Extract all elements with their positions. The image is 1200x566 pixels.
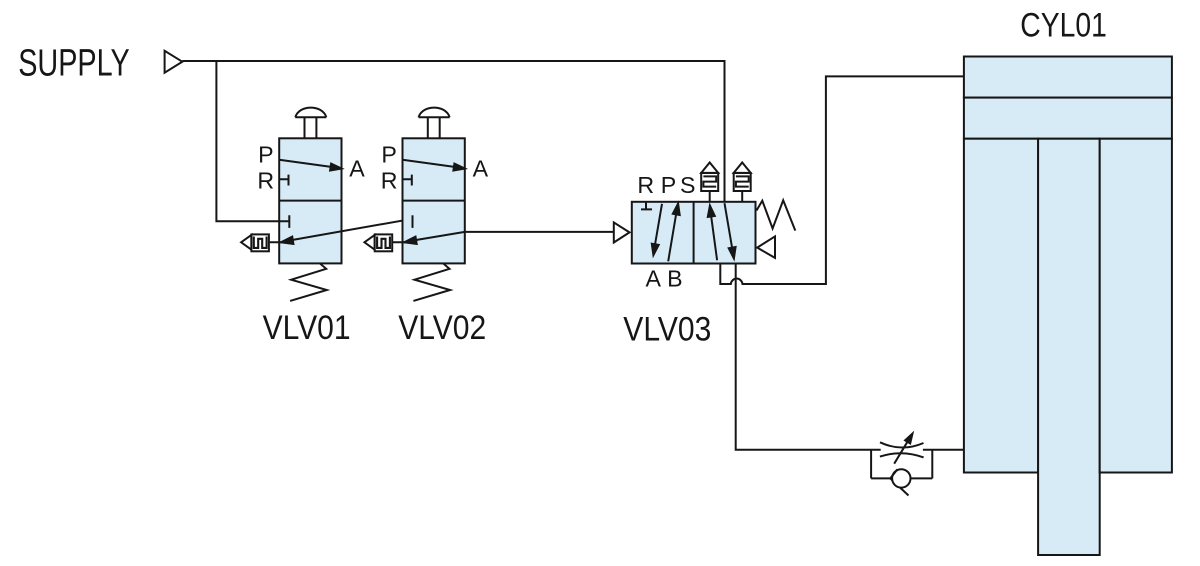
- svg-text:R: R: [381, 168, 398, 194]
- valve VLV01 exhaust arrow A to R: [269, 219, 413, 243]
- valve VLV03 flow arrow right chamber down: [725, 203, 733, 249]
- valve VLV01 exhaust muffler: [241, 235, 251, 250]
- wire VLV02 output to VLV03 pilot: [465, 231, 614, 233]
- svg-text:VLV02: VLV02: [398, 309, 486, 347]
- flow control throttle arcs: [880, 442, 924, 457]
- svg-text:S: S: [680, 172, 695, 198]
- svg-text:CYL01: CYL01: [1020, 7, 1107, 45]
- wire VLV03 port B down to flow control: [736, 264, 881, 450]
- valve VLV01 push button: [295, 108, 326, 139]
- wire supply main horizontal to VLV03 pilot drop: [182, 61, 724, 202]
- valve VLV01 flow arrow P to A: [279, 160, 332, 167]
- valve VLV03 chamber divider: [693, 202, 695, 264]
- valve VLV01 blocked input port: [279, 215, 289, 228]
- cylinder CYL01 left chamber: [964, 139, 1038, 473]
- valve VLV01 position divider: [279, 200, 341, 202]
- cylinder CYL01 cap: [964, 57, 1172, 98]
- flow control check valve diagonal: [890, 478, 908, 495]
- svg-text:VLV01: VLV01: [263, 309, 351, 347]
- svg-text:P: P: [258, 141, 273, 167]
- svg-text:VLV03: VLV03: [623, 310, 711, 348]
- valve VLV03 body: [632, 202, 756, 264]
- flow control check valve seat: [890, 469, 897, 478]
- svg-text:A: A: [645, 265, 661, 291]
- valve VLV02 body: [403, 138, 465, 263]
- svg-text:P: P: [661, 172, 676, 198]
- valve VLV02 position divider: [403, 200, 465, 202]
- valve VLV02 exhaust muffler: [364, 235, 374, 250]
- flow control adjustment arrow: [894, 442, 907, 464]
- cylinder CYL01 right chamber: [1100, 139, 1172, 473]
- valve VLV03 flow arrow B to S: [668, 213, 676, 262]
- flow control frame: [871, 450, 932, 479]
- valve VLV03 return spring: [757, 200, 796, 230]
- valve VLV03 solenoid 2: [734, 173, 751, 191]
- flow control check valve ball: [892, 469, 910, 487]
- supply source triangle: [165, 51, 183, 73]
- svg-text:A: A: [473, 156, 489, 182]
- svg-text:R: R: [637, 172, 654, 198]
- valve VLV02 flow arrow P to A: [403, 160, 456, 167]
- valve VLV03 pilot triangle right: [757, 236, 775, 258]
- valve VLV01 return spring: [290, 264, 327, 301]
- valve VLV03 blocked port R: [641, 202, 652, 210]
- valve VLV02 blocked port R: [403, 175, 412, 186]
- svg-text:SUPPLY: SUPPLY: [18, 42, 130, 84]
- valve VLV03 pilot triangle left: [614, 222, 630, 242]
- valve VLV02 blocked input port: [412, 215, 414, 228]
- valve VLV01 blocked port R: [279, 175, 288, 186]
- wire flow control to cylinder: [923, 449, 964, 451]
- cylinder CYL01 piston rod: [1038, 139, 1100, 555]
- svg-text:R: R: [257, 168, 274, 194]
- valve VLV02 exhaust arrow A to R: [392, 232, 465, 242]
- valve VLV03 flow arrow P to A: [655, 204, 662, 247]
- svg-text:B: B: [667, 265, 682, 291]
- svg-text:P: P: [381, 141, 396, 167]
- valve VLV03 solenoid 1: [701, 173, 718, 191]
- valve VLV03 flow arrow right chamber up: [711, 217, 717, 261]
- wire VLV03 port A to cylinder cap with crossover hop: [720, 76, 964, 284]
- wire supply branch down to VLV01 input: [216, 61, 279, 221]
- valve VLV01 body: [279, 138, 341, 263]
- valve VLV02 return spring: [413, 264, 450, 301]
- svg-text:A: A: [349, 156, 365, 182]
- cylinder CYL01 piston: [964, 98, 1172, 139]
- valve VLV02 push button: [419, 108, 450, 139]
